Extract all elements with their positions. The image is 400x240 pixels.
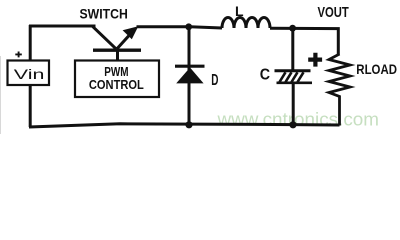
svg-text:VOUT: VOUT xyxy=(318,4,349,21)
PWM CONTROL box U1 xyxy=(75,61,159,98)
svg-text:RLOAD: RLOAD xyxy=(356,61,397,77)
wire top right segment with corner down to resistor xyxy=(137,27,223,28)
capacitor C top plate xyxy=(275,69,311,72)
wire inductor to vout corner xyxy=(270,28,338,54)
node junction diode bottom xyxy=(185,121,192,128)
node junction capacitor top xyxy=(289,25,296,32)
plus sign at capacitor xyxy=(308,53,322,67)
capacitor C bottom lead xyxy=(292,84,295,126)
capacitor C top lead xyxy=(291,28,294,70)
Vin source box xyxy=(8,61,50,86)
svg-text:CONTROL: CONTROL xyxy=(89,77,144,92)
plus sign at Vin xyxy=(15,52,21,58)
inductor L coil xyxy=(222,18,270,29)
svg-text:C: C xyxy=(260,66,271,83)
wire bottom xyxy=(29,124,340,127)
wire left vertical xyxy=(29,25,32,127)
transistor Q1 arrowhead xyxy=(123,26,139,39)
transistor Q1 base bar xyxy=(93,49,141,52)
svg-text:Vin: Vin xyxy=(14,66,45,82)
capacitor C hatched bottom plate xyxy=(280,72,304,82)
diode D cathode bar xyxy=(175,65,205,68)
node junction diode top xyxy=(185,23,192,30)
scan edge artifact xyxy=(0,56,1,134)
resistor RLOAD zigzag xyxy=(329,54,350,126)
node junction capacitor bottom xyxy=(289,121,296,128)
wire top left segment xyxy=(29,25,96,28)
transistor Q1 base vertical to PWM xyxy=(116,50,119,61)
svg-text:SWITCH: SWITCH xyxy=(80,6,128,22)
diode D triangle xyxy=(176,68,203,84)
transistor Q1 right diagonal (collector) xyxy=(117,30,134,49)
capacitor C bottom plate line xyxy=(277,82,313,85)
diode D vertical wire xyxy=(188,27,191,125)
transistor Q1 left diagonal (emitter) xyxy=(93,26,117,49)
svg-text:L: L xyxy=(235,3,244,19)
svg-text:D: D xyxy=(211,72,218,89)
svg-text:www.cntronics.com: www.cntronics.com xyxy=(216,108,379,129)
